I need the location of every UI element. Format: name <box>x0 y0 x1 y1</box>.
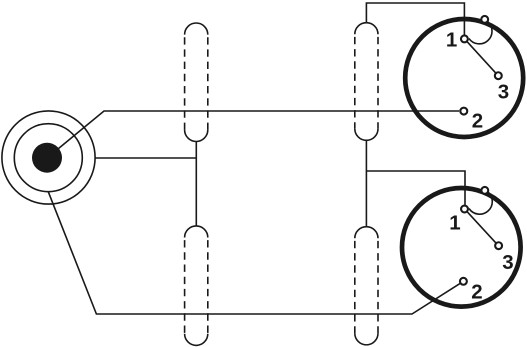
cable shield capsule lower column 2 <box>355 227 378 345</box>
XLR U1 pin 1 <box>461 35 468 42</box>
wire: jack tip to XLR1 pin 2 (top horizontal) <box>47 111 459 158</box>
wire: jack outer ring to shield node column 1 <box>95 157 196 159</box>
XLR U2 pin 3 <box>495 242 502 249</box>
svg-text:1: 1 <box>446 29 457 52</box>
wire: jack sleeve to XLR2 pin 2 (bottom run) <box>48 192 460 314</box>
wire: column 2 shield vertical between capsules <box>365 140 367 226</box>
cable shield capsule upper column 2 <box>355 23 378 141</box>
XLR U2 pin 2 <box>460 278 467 285</box>
XLR U1 shell pin <box>481 16 488 23</box>
wire: column 1 shield vertical between capsules <box>195 141 197 226</box>
jack plug J1 outer ring (sleeve) <box>2 111 95 204</box>
svg-text:2: 2 <box>472 110 483 133</box>
XLR U2 shell pin <box>481 187 488 194</box>
svg-text:2: 2 <box>471 281 482 304</box>
wire: column 2 branch to XLR2 pin 1 <box>366 171 465 205</box>
svg-text:3: 3 <box>502 251 513 274</box>
XLR U1 pin 3 <box>495 72 502 79</box>
XLR U2 ground arc pin1 to shell <box>469 192 492 214</box>
XLR U1 wire pin1 to pin3 <box>467 41 496 73</box>
cable shield capsule lower column 1 <box>185 226 208 345</box>
svg-text:1: 1 <box>449 212 460 235</box>
XLR connector U1 body circle (top) <box>405 19 523 137</box>
svg-text:3: 3 <box>498 80 509 103</box>
cable shield capsule upper column 1 <box>185 23 208 141</box>
XLR U2 wire pin1 to pin3 <box>467 212 496 244</box>
XLR connector U2 body circle (bottom) <box>402 188 521 307</box>
XLR U2 pin 1 <box>461 206 468 213</box>
XLR U1 pin 2 <box>460 108 467 115</box>
XLR U1 ground arc pin1 to shell <box>469 22 492 44</box>
jack plug J1 tip contact (filled dot) <box>32 143 62 173</box>
jack plug J1 middle ring <box>14 124 82 192</box>
wire: column 2 shield top to XLR1 pin 1 <box>366 3 464 35</box>
